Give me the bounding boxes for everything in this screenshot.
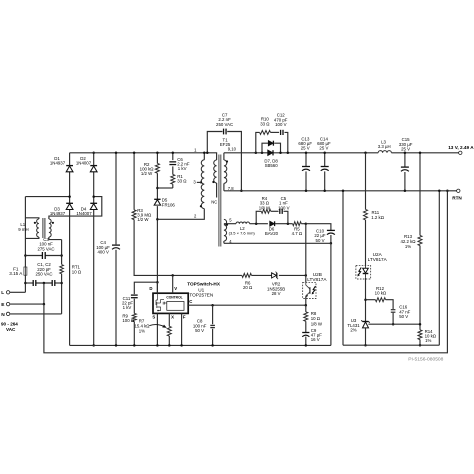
- wire feedback box right: [438, 191, 440, 345]
- svg-text:9 mH: 9 mH: [18, 227, 28, 232]
- node R13 top: [419, 152, 422, 155]
- capacitor C2: [52, 280, 55, 286]
- label R12: [375, 286, 387, 295]
- label C6: [177, 157, 190, 171]
- wire C10 branch: [306, 224, 331, 244]
- svg-text:4.7 Ω: 4.7 Ω: [292, 231, 303, 236]
- U1 box: [153, 293, 188, 313]
- node S bottom: [156, 344, 159, 347]
- wire C7 branch: [207, 132, 241, 191]
- T1 bias phase dot: [212, 181, 214, 183]
- wire N column: [61, 240, 63, 314]
- wire bias down column: [305, 224, 307, 306]
- label R10: [260, 117, 270, 127]
- label input voltage range: [1, 322, 18, 332]
- label R13: [400, 234, 416, 249]
- U2A light arrows: [357, 268, 361, 277]
- label D2: [76, 156, 92, 166]
- node D4 bottom rail: [92, 344, 95, 347]
- svg-text:28 V: 28 V: [272, 291, 281, 296]
- node C pin U2B junction: [305, 304, 308, 307]
- svg-text:CONTROL: CONTROL: [166, 296, 182, 300]
- svg-text:90 - 264: 90 - 264: [1, 322, 18, 327]
- capacitor C4 100uF 400V: [112, 245, 120, 249]
- U2B phototransistor: [306, 282, 310, 298]
- node drain-pin2: [156, 218, 159, 221]
- svg-text:FR106: FR106: [162, 202, 176, 207]
- wire L column: [24, 197, 26, 293]
- node snubber bottom: [156, 187, 159, 190]
- label R11: [371, 210, 384, 220]
- svg-text:TOPSwitch-HX: TOPSwitch-HX: [187, 281, 221, 286]
- capacitor C12 470pF: [281, 130, 283, 135]
- label D4: [76, 206, 92, 216]
- label C1 C2: [35, 262, 52, 276]
- svg-text:400 V: 400 V: [98, 250, 109, 255]
- label C5: [278, 196, 289, 210]
- capacitor C7 2.2nF Y: [224, 129, 227, 135]
- capacitor C9 47uF: [302, 333, 309, 337]
- svg-text:F: F: [183, 315, 186, 320]
- resistor R6 20ohm: [242, 273, 252, 277]
- label VR2: [267, 282, 285, 296]
- inductor L3 3.3uH: [378, 151, 391, 153]
- svg-text:1N4937: 1N4937: [50, 161, 66, 166]
- node C7 right: [240, 190, 243, 193]
- pin 2 label: [194, 214, 197, 219]
- label R1: [177, 174, 187, 184]
- label D6: [265, 227, 279, 237]
- svg-text:13 V, 2.49 A: 13 V, 2.49 A: [448, 145, 474, 150]
- wire D1 column: [69, 153, 71, 346]
- capacitor C16 47nF: [391, 310, 396, 313]
- node R2 top: [156, 152, 159, 155]
- wire L1 left top stub: [25, 218, 39, 219]
- wire secondary RTN rail: [224, 190, 457, 192]
- wire R11 column: [365, 153, 367, 345]
- diode D4 1N4007: [90, 203, 97, 209]
- L1 core: [43, 218, 45, 238]
- wire R4C5 branch: [256, 211, 288, 223]
- pin 3 stub: [193, 179, 201, 184]
- svg-text:SB560: SB560: [265, 163, 279, 168]
- fuse F1: [24, 267, 27, 275]
- T1 primary phase dot upper: [200, 181, 202, 183]
- resistor R1 33ohm: [171, 175, 175, 185]
- wire drain column: [156, 153, 158, 293]
- svg-text:1/8 W: 1/8 W: [311, 321, 323, 326]
- label R5: [292, 227, 303, 237]
- label L3: [378, 140, 391, 150]
- node V pin junction: [171, 274, 174, 277]
- wire R12 branch: [366, 300, 394, 325]
- pin 7 8 label: [228, 186, 234, 191]
- diode D5 FR106: [154, 199, 160, 205]
- U1 CONTROL text: [166, 296, 182, 300]
- diode D7 SB560: [268, 141, 273, 146]
- svg-text:1/8 W: 1/8 W: [259, 205, 271, 210]
- node TL431 anode: [364, 344, 367, 347]
- U1 pin X: [169, 313, 174, 345]
- node C14 top: [323, 152, 326, 155]
- wire R13 R14 column: [419, 153, 421, 345]
- T1 bias2 winding: [224, 219, 236, 243]
- svg-text:25 V: 25 V: [301, 146, 310, 151]
- thermistor RT1: [60, 265, 64, 274]
- node R14 bottom: [419, 344, 422, 347]
- svg-text:D: D: [149, 286, 152, 291]
- label D1: [50, 156, 66, 166]
- wire E terminal to Y-cap midpoint: [10, 303, 44, 305]
- capacitor C13 680uF: [302, 167, 310, 171]
- svg-text:33 Ω: 33 Ω: [260, 121, 270, 126]
- svg-text:33 Ω: 33 Ω: [177, 179, 187, 184]
- svg-text:(3.5 × 7.6 mm): (3.5 × 7.6 mm): [229, 231, 256, 236]
- svg-text:V: V: [174, 286, 177, 291]
- node primary top: [203, 152, 206, 155]
- label L2: [229, 226, 256, 236]
- U1 pin V: [173, 275, 178, 293]
- svg-text:50 V: 50 V: [399, 314, 408, 319]
- node C7 left: [206, 152, 209, 155]
- svg-text:275 VAC: 275 VAC: [37, 246, 54, 251]
- wire C13 column: [305, 153, 307, 191]
- node C13 bottom: [305, 190, 308, 193]
- svg-text:TOP257EN: TOP257EN: [189, 293, 213, 298]
- node C4 top: [115, 152, 118, 155]
- svg-text:10 Ω: 10 Ω: [72, 269, 82, 274]
- capacitor C10 22uF: [327, 230, 335, 234]
- output terminal 13V: [448, 145, 474, 155]
- U1 pin F: [182, 313, 186, 345]
- resistor R5 4.7ohm: [293, 222, 302, 226]
- svg-text:S: S: [152, 315, 155, 320]
- U1 mosfet symbol: [156, 293, 167, 311]
- svg-text:100 V: 100 V: [275, 122, 286, 127]
- capacitor C14 680uF: [321, 167, 329, 171]
- svg-text:20 Ω: 20 Ω: [243, 285, 253, 290]
- node C6 top: [172, 152, 175, 155]
- svg-text:100 Ω: 100 Ω: [122, 318, 134, 323]
- wire secondary top rail: [224, 152, 459, 154]
- L1 phase dot left: [34, 222, 36, 224]
- node X bottom: [168, 344, 171, 347]
- node C8 bottom: [211, 344, 214, 347]
- svg-text:1 kV: 1 kV: [123, 305, 132, 310]
- node feedback right RTN: [438, 190, 441, 193]
- T1 primary winding: [201, 153, 204, 209]
- T1 primary phase dot lower: [200, 205, 202, 207]
- svg-text:50 V: 50 V: [195, 328, 204, 333]
- label U1: [189, 288, 213, 298]
- inductor L1 right winding: [49, 219, 51, 237]
- svg-text:N: N: [1, 312, 5, 318]
- wire C4 column: [115, 153, 117, 346]
- node R9 bottom: [133, 344, 136, 347]
- label U3: [347, 318, 360, 332]
- wire C14 column: [324, 153, 326, 191]
- shunt regulator U3 TL431: [361, 320, 370, 328]
- node C4 bottom: [115, 344, 118, 347]
- label C14: [317, 136, 331, 150]
- wire L node to bridge: [25, 196, 69, 198]
- wire R8C9 column: [305, 305, 307, 345]
- svg-text:BAV20: BAV20: [265, 231, 279, 236]
- pin 1 label: [194, 147, 197, 152]
- svg-text:1N4007: 1N4007: [76, 161, 92, 166]
- node C15 top: [404, 152, 407, 155]
- wire D2 column: [93, 153, 95, 346]
- terminal L: [1, 290, 10, 296]
- node VR2 bias junction: [305, 274, 308, 277]
- label RT1: [72, 265, 82, 275]
- U2B light arrows: [312, 286, 316, 295]
- node feedback left RTN: [342, 190, 345, 193]
- T1 bias2 phase dot: [226, 224, 228, 226]
- node drain-C11: [156, 281, 159, 284]
- wire R10C12 snubber: [256, 132, 288, 152]
- resistor R10 33ohm: [260, 130, 271, 134]
- resistor R12 10k: [375, 298, 385, 302]
- wire feedback box left: [342, 191, 344, 345]
- svg-text:1/2 W: 1/2 W: [137, 217, 149, 222]
- node wrap-RTN: [446, 190, 449, 193]
- wire C1C2 row: [25, 282, 61, 284]
- svg-text:50 V: 50 V: [316, 238, 325, 243]
- node L-C1: [24, 282, 27, 285]
- wire bias return to ground: [330, 243, 332, 345]
- label U2A: [368, 252, 388, 262]
- node C14 bottom: [323, 190, 326, 193]
- svg-text:10 kΩ: 10 kΩ: [375, 291, 387, 296]
- svg-text:3.15 A: 3.15 A: [9, 271, 23, 276]
- label C4: [96, 240, 110, 255]
- wire C1C2 midpoint down to earth: [43, 283, 45, 304]
- svg-text:7,8: 7,8: [228, 186, 234, 191]
- node bridge L: [68, 195, 71, 198]
- wire feedback box bottom: [343, 344, 439, 346]
- label C10: [314, 228, 326, 242]
- svg-text:9,10: 9,10: [228, 147, 237, 152]
- capacitor C6 2.2nF: [169, 162, 176, 165]
- resistor R9 100ohm: [132, 313, 136, 321]
- node D2 top rail: [92, 152, 95, 155]
- zener VR2 1N5255B: [272, 272, 279, 279]
- svg-text:1%: 1%: [139, 329, 145, 334]
- capacitor C15 330uF: [401, 167, 409, 171]
- label C8: [193, 319, 207, 333]
- resistor R13 42.2k: [418, 235, 422, 245]
- node snubber left: [255, 152, 257, 155]
- wire C6R1 branch: [157, 153, 172, 188]
- svg-text:16 V: 16 V: [311, 337, 320, 342]
- resistor R4 33ohm: [261, 209, 271, 213]
- label D5: [162, 198, 176, 208]
- label L1: [18, 222, 28, 232]
- node bridge N: [92, 195, 95, 198]
- label C12: [274, 113, 288, 127]
- svg-text:1/2 W: 1/2 W: [141, 171, 153, 176]
- wire pin2 to drain: [157, 209, 204, 220]
- label C11: [122, 296, 133, 310]
- node N-C1: [60, 282, 63, 285]
- node C16 bottom: [392, 323, 395, 326]
- node R12 junction: [364, 298, 367, 301]
- svg-text:1N4937: 1N4937: [50, 211, 66, 216]
- svg-text:L: L: [1, 290, 4, 296]
- diode D3 1N4937: [66, 203, 73, 209]
- pin 5 label: [229, 217, 232, 222]
- node C9 bottom: [305, 344, 308, 347]
- diode D8 SB560: [268, 150, 273, 155]
- RTN terminal: [452, 189, 462, 200]
- svg-text:RTN: RTN: [452, 195, 462, 200]
- inductor L2 bead: [236, 222, 250, 224]
- node R13 R14 ref: [419, 323, 422, 326]
- label R9: [122, 314, 134, 324]
- label NC: [211, 200, 217, 205]
- label C9: [311, 328, 323, 342]
- node R11 top: [364, 152, 367, 155]
- pin 9 10 label: [228, 147, 237, 152]
- label F1: [9, 266, 23, 276]
- diode D1 1N4937: [66, 166, 73, 172]
- svg-text:100 V: 100 V: [278, 205, 289, 210]
- svg-text:250 VAC: 250 VAC: [216, 122, 233, 127]
- svg-text:1.2 kΩ: 1.2 kΩ: [371, 215, 384, 220]
- svg-text:NC: NC: [211, 200, 217, 205]
- label C15: [399, 137, 413, 151]
- svg-text:X: X: [171, 315, 174, 320]
- wire bias row: [250, 223, 306, 225]
- svg-text:25 V: 25 V: [401, 147, 410, 152]
- node earth junction: [43, 303, 46, 306]
- terminal N: [1, 312, 10, 318]
- optocoupler U2A box: [356, 265, 371, 279]
- resistor R7 15.4k: [167, 326, 171, 336]
- node D6-R5: [287, 222, 290, 225]
- svg-text:VAC: VAC: [6, 327, 16, 332]
- wire C3 row: [25, 255, 61, 257]
- label C13: [298, 136, 312, 150]
- label C7: [216, 112, 233, 127]
- label C16: [399, 305, 410, 319]
- node snubber right: [287, 152, 290, 155]
- node D7 left: [261, 152, 264, 155]
- svg-text:1%: 1%: [405, 244, 411, 249]
- wire L1 left bottom stub: [25, 237, 39, 238]
- label R6: [243, 281, 253, 291]
- node D7 right: [279, 152, 282, 155]
- diode D6 BAV20: [270, 221, 275, 226]
- svg-text:1 kV: 1 kV: [178, 166, 187, 171]
- label R14: [425, 329, 437, 343]
- wire C11 branch: [134, 282, 157, 345]
- node L-C3: [24, 254, 27, 257]
- label R3: [137, 208, 152, 222]
- label R2: [140, 162, 155, 176]
- wire L terminal to fuse column: [10, 291, 26, 293]
- node C13 top: [305, 152, 308, 155]
- terminal E: [1, 302, 10, 308]
- node L2-D6: [255, 222, 258, 225]
- label R8: [311, 311, 323, 326]
- node F bottom: [180, 344, 183, 347]
- svg-text:1N4007: 1N4007: [76, 211, 92, 216]
- label TOPSwitch-HX: [187, 281, 221, 286]
- node C pin C8: [211, 304, 214, 307]
- svg-text:LTV817A: LTV817A: [307, 277, 327, 282]
- node bias plus: [305, 222, 308, 225]
- U1 pin C: [188, 299, 306, 305]
- resistor R11 1.2k: [364, 209, 368, 220]
- wire L1 right top to bridge N node: [49, 197, 102, 219]
- label R4: [259, 196, 271, 210]
- T1 bias winding: [207, 153, 216, 183]
- label D3: [50, 206, 66, 216]
- wire primary bottom rail: [70, 344, 331, 346]
- resistor R3 3.9M: [132, 210, 136, 220]
- svg-text:3.3 µH: 3.3 µH: [378, 144, 391, 149]
- U2A led: [363, 265, 369, 278]
- node C10 bottom: [330, 242, 333, 245]
- L1 phase dot right: [52, 222, 54, 224]
- capacitor C11 22pF: [131, 295, 138, 298]
- T1 secondary winding: [224, 153, 227, 191]
- resistor R8 10ohm: [304, 312, 308, 321]
- wire R3 column and V row: [134, 153, 306, 276]
- svg-text:C: C: [189, 299, 192, 304]
- resistor R2 100k: [155, 163, 159, 173]
- optocoupler U2B box: [303, 282, 316, 298]
- node C1-C2 midpoint: [43, 282, 46, 285]
- label D7 D8: [264, 158, 278, 168]
- svg-text:25 V: 25 V: [319, 146, 328, 151]
- capacitor C8 100nF: [210, 325, 215, 327]
- U1 control block: [167, 302, 184, 311]
- svg-text:1%: 1%: [425, 338, 431, 343]
- T1 secondary phase dot: [226, 160, 228, 162]
- wire N terminal to N column: [10, 313, 62, 315]
- wire NC stub: [216, 183, 218, 198]
- U1 pin D: [149, 282, 157, 293]
- capacitor C5 1nF: [280, 209, 282, 214]
- svg-text:250 VAC: 250 VAC: [35, 272, 52, 277]
- pin 4 label: [229, 239, 232, 244]
- svg-text:PI-5156-080508: PI-5156-080508: [408, 357, 443, 363]
- capacitor C3: [42, 252, 45, 259]
- wire earth bottom wrap: [44, 191, 448, 353]
- U1 pin S: [152, 313, 157, 345]
- node R3 top: [133, 152, 136, 155]
- wire L1 right bottom stub: [49, 237, 62, 240]
- wire bias return: [224, 242, 331, 244]
- T1 core: [219, 155, 221, 247]
- label T1: [220, 137, 231, 147]
- svg-text:2%: 2%: [350, 327, 356, 332]
- label C3: [37, 237, 54, 252]
- inductor L1 left winding: [37, 219, 39, 237]
- wire C15 column: [404, 153, 406, 191]
- wire TL431 ref line: [368, 323, 420, 325]
- wire primary top rail: [70, 152, 208, 154]
- diode D2 1N4007: [90, 166, 97, 172]
- wire C8 column: [212, 305, 214, 345]
- resistor R14 10k: [418, 330, 422, 340]
- node C15 bottom: [404, 190, 407, 193]
- label R7 with arrow: [134, 319, 166, 334]
- label U2B: [307, 272, 327, 282]
